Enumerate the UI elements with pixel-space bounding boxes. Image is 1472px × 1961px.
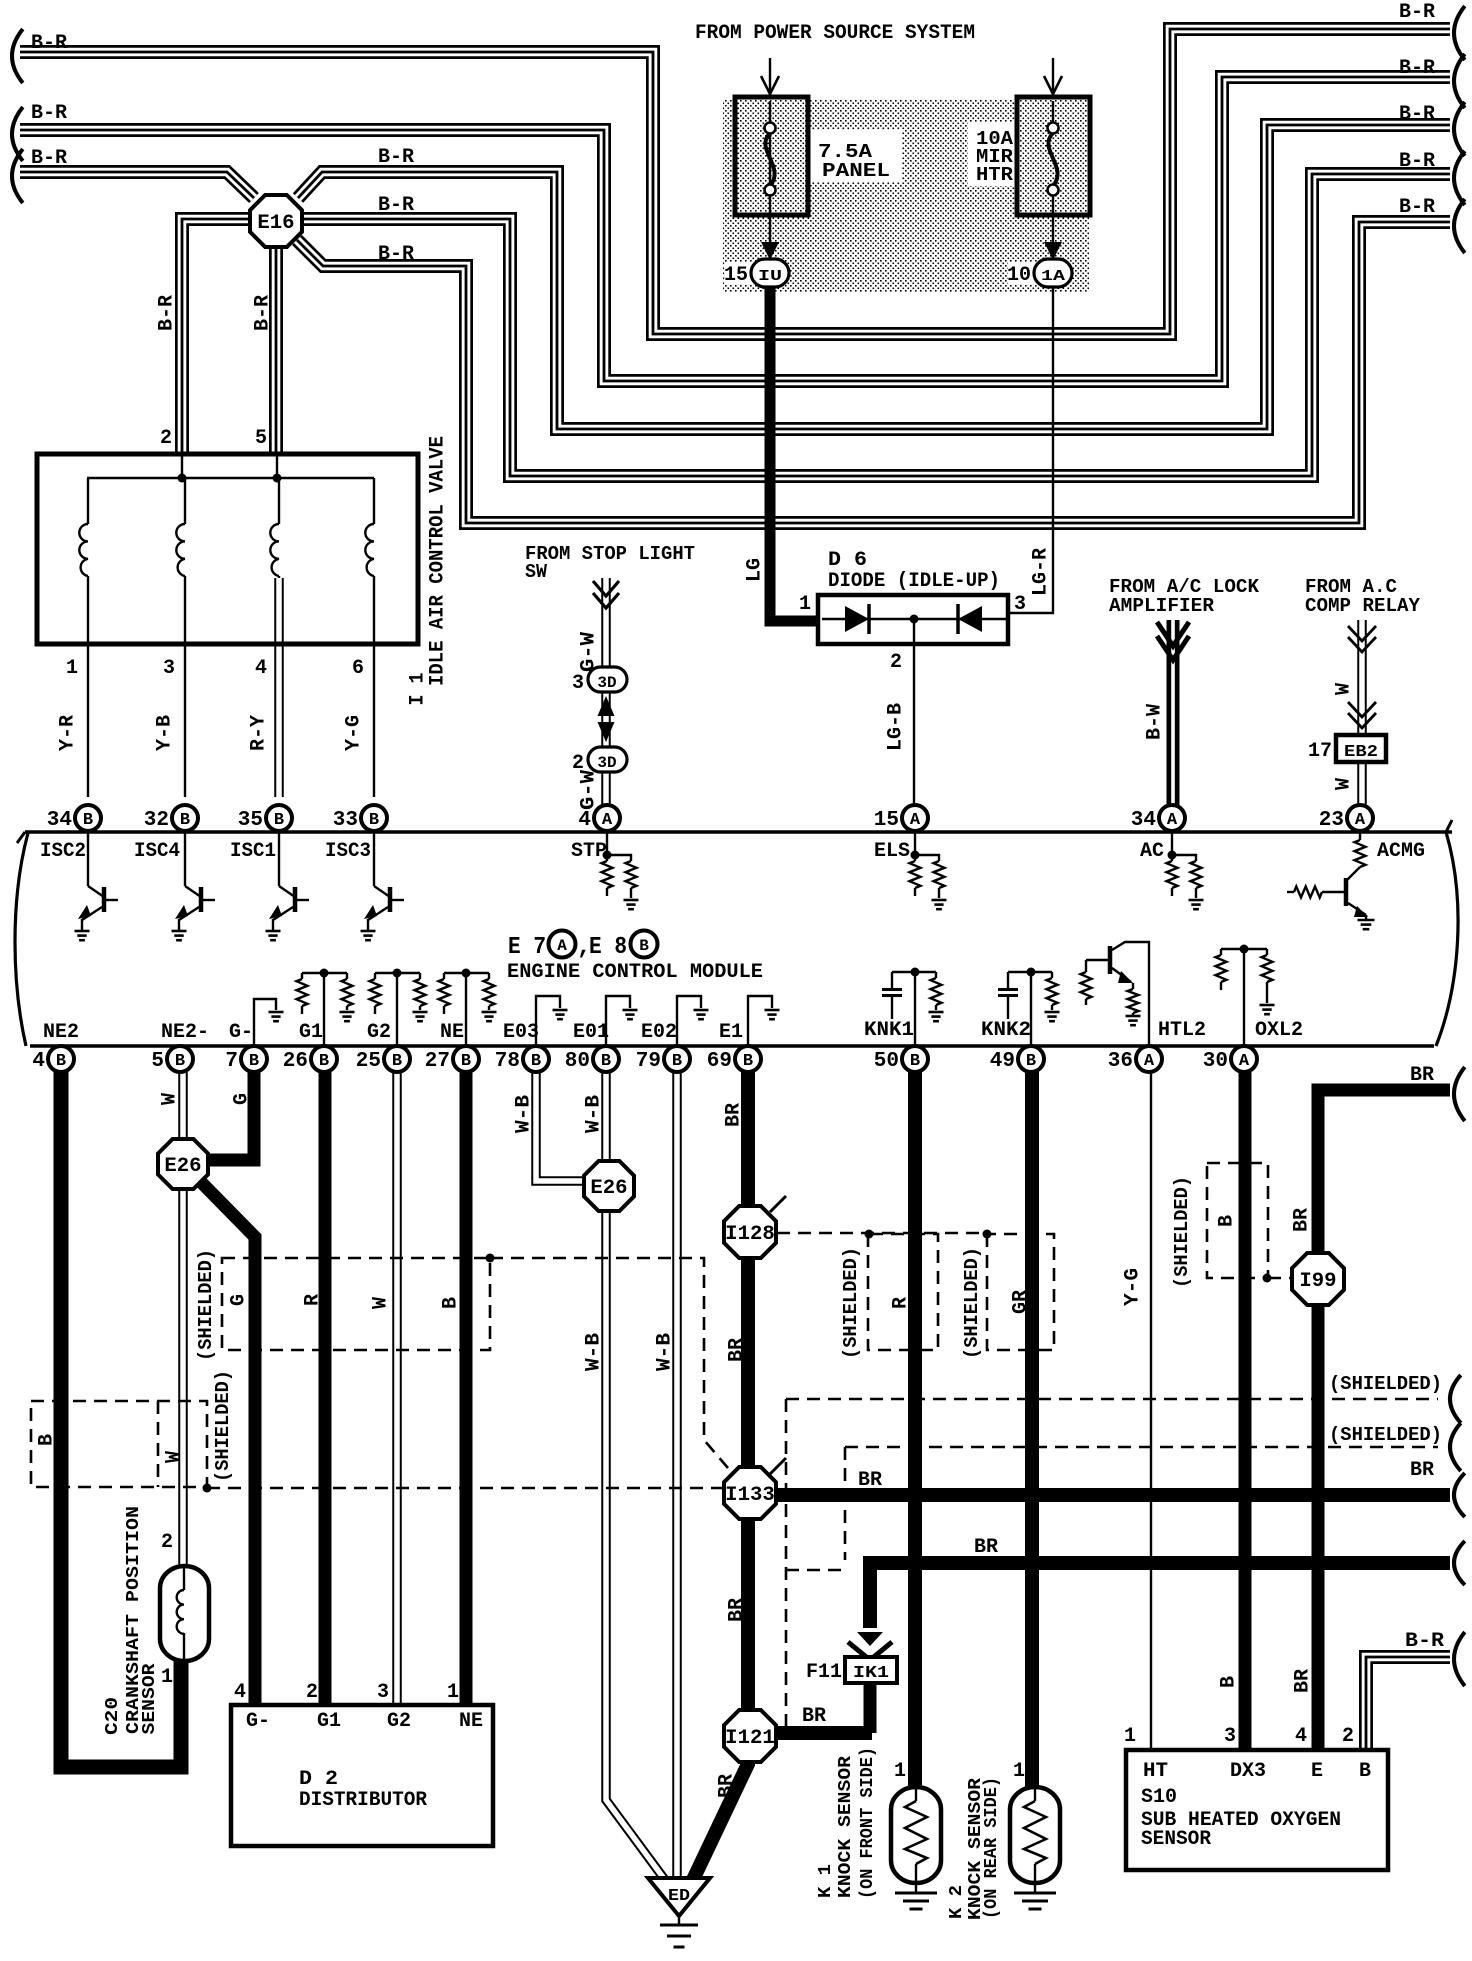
svg-text:G-: G-: [229, 1021, 253, 1044]
svg-text:5: 5: [151, 1050, 164, 1073]
svg-text:34: 34: [1131, 809, 1156, 832]
svg-text:W-B: W-B: [583, 1095, 606, 1133]
svg-text:W: W: [1333, 778, 1356, 790]
svg-text:KNOCK SENSOR: KNOCK SENSOR: [836, 1756, 856, 1898]
svg-text:BR: BR: [858, 1469, 882, 1492]
svg-text:80: 80: [565, 1050, 590, 1073]
svg-text:BR: BR: [802, 1705, 826, 1728]
svg-text:BR: BR: [726, 1338, 749, 1362]
svg-text:30: 30: [1203, 1050, 1228, 1073]
svg-text:35: 35: [238, 809, 263, 832]
svg-text:B: B: [601, 1052, 611, 1071]
svg-text:EB2: EB2: [1344, 743, 1378, 762]
svg-text:B-R: B-R: [1399, 1, 1435, 24]
svg-text:OXL2: OXL2: [1255, 1019, 1303, 1042]
svg-text:B: B: [369, 811, 379, 830]
svg-text:A: A: [1167, 811, 1178, 830]
svg-text:W: W: [1333, 683, 1356, 695]
svg-text:2: 2: [160, 427, 172, 450]
svg-text:BR: BR: [1292, 1669, 1315, 1693]
svg-text:ELS: ELS: [874, 840, 910, 863]
svg-text:LG-R: LG-R: [1030, 548, 1053, 596]
svg-text:2: 2: [306, 1681, 318, 1704]
svg-text:E: E: [1311, 1760, 1323, 1783]
svg-text:DIODE (IDLE-UP): DIODE (IDLE-UP): [828, 570, 1000, 593]
svg-text:ACMG: ACMG: [1377, 840, 1425, 863]
svg-text:3D: 3D: [597, 674, 616, 692]
svg-text:(SHIELDED): (SHIELDED): [1171, 1176, 1193, 1288]
svg-text:NE: NE: [459, 1710, 483, 1733]
svg-text:1: 1: [161, 1666, 173, 1689]
svg-text:LG: LG: [744, 558, 767, 582]
svg-text:4: 4: [32, 1050, 45, 1073]
svg-text:E26: E26: [164, 1155, 201, 1178]
svg-text:IK1: IK1: [853, 1664, 889, 1683]
svg-text:FROM POWER SOURCE SYSTEM: FROM POWER SOURCE SYSTEM: [695, 22, 975, 45]
svg-text:G: G: [228, 1294, 251, 1306]
svg-text:B-R: B-R: [31, 32, 67, 55]
svg-text:4: 4: [1295, 1725, 1307, 1748]
svg-text:R-Y: R-Y: [248, 715, 271, 751]
svg-text:B-W: B-W: [1144, 704, 1167, 740]
svg-text:Y-G: Y-G: [1122, 1268, 1145, 1306]
svg-text:4: 4: [255, 657, 267, 680]
svg-text:7: 7: [225, 1050, 238, 1073]
svg-text:BR: BR: [726, 1598, 749, 1622]
svg-text:3: 3: [1014, 593, 1026, 616]
svg-text:A: A: [1355, 811, 1366, 830]
svg-text:B: B: [249, 1052, 259, 1071]
svg-text:W-B: W-B: [513, 1095, 536, 1133]
svg-text:36: 36: [1108, 1050, 1133, 1073]
svg-text:(SHIELDED): (SHIELDED): [840, 1247, 862, 1359]
svg-text:ED: ED: [668, 1887, 690, 1906]
svg-text:B-R: B-R: [378, 194, 414, 217]
svg-text:DX3: DX3: [1230, 1760, 1266, 1783]
svg-text:K 1: K 1: [816, 1864, 836, 1898]
svg-text:BR: BR: [716, 1774, 739, 1798]
svg-text:W-B: W-B: [583, 1333, 606, 1371]
svg-text:B: B: [392, 1052, 402, 1071]
svg-text:R: R: [302, 1294, 325, 1306]
svg-text:G-W: G-W: [578, 632, 601, 672]
svg-text:BR: BR: [1410, 1459, 1434, 1482]
svg-text:W: W: [163, 1451, 186, 1463]
svg-text:G-W: G-W: [578, 770, 601, 810]
svg-text:KNK2: KNK2: [981, 1019, 1031, 1042]
svg-text:NE2: NE2: [43, 1021, 79, 1044]
svg-text:I121: I121: [725, 1727, 775, 1750]
svg-text:D 6: D 6: [828, 549, 867, 572]
svg-text:17: 17: [1308, 740, 1332, 763]
svg-text:2: 2: [890, 651, 902, 674]
svg-text:2: 2: [572, 752, 584, 775]
svg-text:ENGINE CONTROL MODULE: ENGINE CONTROL MODULE: [507, 961, 763, 984]
svg-text:10: 10: [1007, 264, 1031, 287]
svg-text:SENSOR: SENSOR: [1141, 1828, 1211, 1851]
svg-text:B-R: B-R: [1405, 1630, 1444, 1653]
svg-text:E 8: E 8: [589, 934, 627, 961]
svg-text:ISC4: ISC4: [134, 840, 180, 863]
svg-text:E02: E02: [641, 1021, 677, 1044]
svg-text:R: R: [890, 1297, 913, 1309]
svg-text:78: 78: [495, 1050, 520, 1073]
svg-text:G-: G-: [246, 1710, 270, 1733]
svg-text:49: 49: [990, 1050, 1015, 1073]
svg-text:B-R: B-R: [1399, 150, 1435, 173]
svg-text:W: W: [159, 1093, 182, 1105]
svg-text:G2: G2: [367, 1021, 391, 1044]
svg-text:(ON FRONT SIDE): (ON FRONT SIDE): [858, 1747, 878, 1899]
svg-text:1: 1: [1013, 1760, 1025, 1783]
svg-text:6: 6: [352, 657, 364, 680]
svg-text:ISC2: ISC2: [40, 840, 86, 863]
svg-text:3: 3: [572, 672, 584, 695]
svg-text:AC: AC: [1140, 840, 1164, 863]
svg-text:B-R: B-R: [1399, 196, 1435, 219]
svg-text:(SHIELDED): (SHIELDED): [1329, 1373, 1442, 1395]
svg-text:A: A: [557, 937, 567, 955]
svg-text:3: 3: [163, 657, 175, 680]
svg-text:26: 26: [283, 1050, 308, 1073]
svg-text:B: B: [180, 811, 190, 830]
svg-text:23: 23: [1319, 809, 1344, 832]
svg-text:B: B: [1026, 1052, 1036, 1071]
svg-text:I133: I133: [725, 1484, 775, 1507]
svg-text:Y-G: Y-G: [343, 715, 366, 751]
svg-text:1: 1: [66, 657, 78, 680]
svg-text:I99: I99: [1299, 1270, 1336, 1293]
svg-text:A: A: [1144, 1052, 1155, 1071]
svg-text:HT: HT: [1143, 1760, 1168, 1783]
svg-text:B: B: [461, 1052, 471, 1071]
svg-text:K 2: K 2: [947, 1885, 967, 1919]
svg-text:B-R: B-R: [31, 147, 67, 170]
svg-text:B-R: B-R: [1399, 103, 1435, 126]
svg-text:E 7: E 7: [508, 934, 546, 961]
svg-text:B: B: [672, 1052, 682, 1071]
svg-text:B: B: [639, 937, 649, 955]
svg-text:G2: G2: [387, 1710, 411, 1733]
svg-text:25: 25: [356, 1050, 381, 1073]
svg-text:B: B: [743, 1052, 753, 1071]
svg-text:B: B: [56, 1052, 66, 1071]
svg-text:(SHIELDED): (SHIELDED): [961, 1247, 983, 1359]
svg-text:A: A: [910, 811, 921, 830]
svg-text:B: B: [910, 1052, 920, 1071]
svg-text:1: 1: [447, 1681, 459, 1704]
svg-text:69: 69: [707, 1050, 732, 1073]
svg-text:A: A: [602, 811, 613, 830]
svg-text:(SHIELDED): (SHIELDED): [212, 1370, 234, 1482]
svg-text:DISTRIBUTOR: DISTRIBUTOR: [299, 1789, 427, 1812]
svg-text:G: G: [231, 1093, 254, 1105]
svg-text:B: B: [1216, 1215, 1239, 1227]
svg-text:E16: E16: [257, 212, 294, 235]
svg-text:27: 27: [425, 1050, 450, 1073]
svg-text:F11: F11: [806, 1661, 842, 1684]
svg-text:BR: BR: [1410, 1064, 1434, 1087]
svg-text:4: 4: [234, 1681, 246, 1704]
svg-text:B: B: [274, 811, 284, 830]
svg-text:HTL2: HTL2: [1158, 1019, 1206, 1042]
svg-text:SW: SW: [525, 561, 548, 583]
svg-text:G1: G1: [317, 1710, 341, 1733]
svg-text:15: 15: [874, 809, 899, 832]
svg-text:ISC3: ISC3: [325, 840, 371, 863]
svg-text:(SHIELDED): (SHIELDED): [195, 1249, 217, 1361]
svg-text:B: B: [36, 1434, 59, 1446]
svg-text:3: 3: [1224, 1725, 1236, 1748]
svg-text:HTR: HTR: [976, 164, 1014, 186]
svg-text:COMP RELAY: COMP RELAY: [1305, 595, 1421, 617]
svg-text:50: 50: [874, 1050, 899, 1073]
svg-text:B-R: B-R: [378, 243, 414, 266]
svg-text:KNK1: KNK1: [864, 1019, 914, 1042]
svg-text:1: 1: [1124, 1725, 1136, 1748]
svg-text:LG-B: LG-B: [885, 703, 908, 751]
svg-text:32: 32: [144, 809, 169, 832]
svg-text:B: B: [83, 811, 93, 830]
svg-text:33: 33: [333, 809, 358, 832]
svg-text:2: 2: [161, 1531, 173, 1554]
svg-text:ISC1: ISC1: [230, 840, 276, 863]
svg-text:A: A: [1239, 1052, 1250, 1071]
svg-text:15: 15: [724, 264, 748, 287]
svg-text:3: 3: [377, 1681, 389, 1704]
svg-text:SENSOR: SENSOR: [140, 1663, 160, 1734]
svg-text:FROM STOP LIGHT: FROM STOP LIGHT: [525, 543, 695, 565]
svg-text:E26: E26: [590, 1177, 627, 1200]
svg-text:(SHIELDED): (SHIELDED): [1329, 1424, 1442, 1446]
svg-text:G1: G1: [299, 1021, 323, 1044]
svg-text:I128: I128: [725, 1223, 775, 1246]
svg-text:34: 34: [47, 809, 72, 832]
svg-text:B-R: B-R: [252, 295, 275, 331]
svg-text:BR: BR: [974, 1536, 998, 1559]
svg-text:W: W: [370, 1297, 393, 1309]
svg-text:BR: BR: [1291, 1208, 1314, 1232]
svg-text:STP: STP: [571, 840, 607, 863]
svg-text:PANEL: PANEL: [822, 160, 890, 182]
svg-text:3D: 3D: [597, 754, 616, 772]
svg-text:IDLE AIR CONTROL VALVE: IDLE AIR CONTROL VALVE: [427, 436, 450, 686]
svg-text:E1: E1: [719, 1021, 743, 1044]
svg-text:E03: E03: [503, 1021, 539, 1044]
svg-text:2: 2: [1342, 1725, 1354, 1748]
svg-text:Y-B: Y-B: [154, 715, 177, 751]
svg-text:B-R: B-R: [156, 295, 179, 331]
svg-text:4: 4: [578, 809, 591, 832]
svg-text:B-R: B-R: [1399, 57, 1435, 80]
svg-text:B: B: [1359, 1760, 1371, 1783]
svg-text:S10: S10: [1141, 1786, 1177, 1809]
svg-text:B: B: [440, 1297, 463, 1309]
svg-text:NE2-: NE2-: [161, 1021, 209, 1044]
svg-text:Y-R: Y-R: [57, 715, 80, 751]
svg-text:GR: GR: [1010, 1290, 1033, 1314]
svg-text:IU: IU: [758, 268, 782, 285]
svg-text:B: B: [175, 1052, 185, 1071]
svg-text:B: B: [1218, 1676, 1241, 1688]
svg-text:1A: 1A: [1041, 268, 1065, 285]
svg-text:B: B: [531, 1052, 541, 1071]
svg-text:(ON REAR SIDE): (ON REAR SIDE): [982, 1777, 1002, 1919]
svg-text:B-R: B-R: [378, 146, 414, 169]
svg-text:D 2: D 2: [299, 1768, 338, 1791]
svg-text:C20: C20: [103, 1697, 123, 1735]
svg-text:79: 79: [636, 1050, 661, 1073]
svg-text:E01: E01: [573, 1021, 609, 1044]
svg-text:B-R: B-R: [31, 102, 67, 125]
svg-text:BR: BR: [723, 1103, 746, 1127]
svg-text:1: 1: [799, 593, 811, 616]
svg-text:B: B: [319, 1052, 329, 1071]
svg-text:5: 5: [255, 427, 267, 450]
svg-text:AMPLIFIER: AMPLIFIER: [1109, 595, 1215, 617]
svg-text:1: 1: [894, 1760, 906, 1783]
svg-text:W-B: W-B: [654, 1333, 677, 1371]
svg-text:NE: NE: [440, 1021, 464, 1044]
